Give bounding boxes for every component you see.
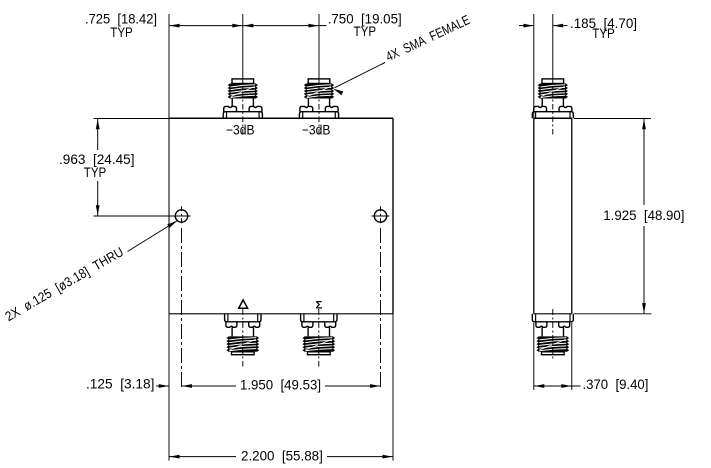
svg-text:TYP: TYP xyxy=(354,24,377,39)
svg-text:.370 [9.40]: .370 [9.40] xyxy=(583,377,649,392)
svg-text:TYP: TYP xyxy=(110,25,133,40)
svg-text:1.925 [48.90]: 1.925 [48.90] xyxy=(603,208,684,223)
svg-text:−3dB: −3dB xyxy=(302,123,331,138)
svg-text:Σ: Σ xyxy=(315,300,322,312)
svg-text:TYP: TYP xyxy=(84,165,107,180)
svg-text:.125 [3.18]: .125 [3.18] xyxy=(86,377,154,392)
svg-text:1.950 [49.53]: 1.950 [49.53] xyxy=(240,377,321,392)
svg-text:TYP: TYP xyxy=(592,26,615,41)
svg-text:2.200 [55.88]: 2.200 [55.88] xyxy=(241,448,323,463)
svg-text:−3dB: −3dB xyxy=(226,123,255,138)
